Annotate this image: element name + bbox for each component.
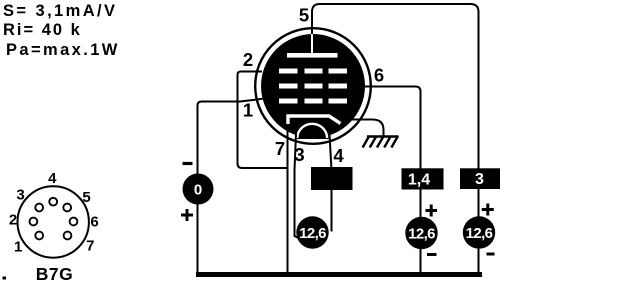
svg-text:7: 7 [275,138,285,159]
svg-text:1: 1 [243,100,253,121]
svg-text:6: 6 [374,65,384,86]
svg-text:4: 4 [48,170,57,187]
svg-text:12,6: 12,6 [299,225,326,242]
svg-text:3: 3 [294,144,304,165]
svg-text:1: 1 [14,239,22,256]
svg-text:1,4: 1,4 [408,172,430,189]
svg-text:5: 5 [82,189,90,206]
svg-text:3: 3 [16,187,24,204]
svg-text:3: 3 [475,171,484,188]
svg-text:12,6: 12,6 [408,226,435,243]
svg-text:B7G: B7G [36,264,73,284]
svg-text:0: 0 [194,182,202,199]
svg-text:Pa=max.1W: Pa=max.1W [6,41,120,59]
svg-text:6: 6 [90,213,98,230]
svg-text:7: 7 [86,238,94,255]
svg-text:Ri= 40 k: Ri= 40 k [3,21,82,39]
svg-text:2: 2 [9,212,17,229]
svg-text:S=: S= [3,2,28,20]
svg-text:5: 5 [299,5,309,26]
svg-text:2: 2 [243,49,253,70]
svg-text:3,1mA/V: 3,1mA/V [36,2,118,20]
svg-text:12,6: 12,6 [466,225,493,242]
svg-text:4: 4 [333,145,344,166]
